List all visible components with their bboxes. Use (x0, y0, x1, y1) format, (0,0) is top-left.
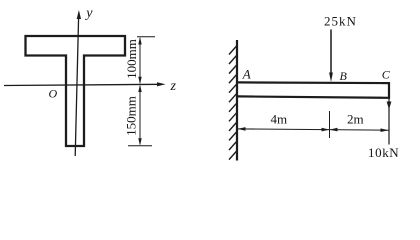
svg-text:A: A (242, 67, 251, 82)
svg-text:C: C (382, 68, 391, 82)
svg-text:100mm: 100mm (124, 39, 139, 79)
svg-text:O: O (49, 87, 58, 101)
svg-text:z: z (170, 79, 177, 94)
svg-text:4m: 4m (271, 112, 288, 127)
svg-text:10kN: 10kN (368, 145, 399, 160)
svg-text:B: B (340, 69, 348, 83)
svg-text:150mm: 150mm (124, 96, 139, 136)
svg-text:2m: 2m (347, 112, 364, 127)
svg-text:25kN: 25kN (324, 14, 357, 29)
svg-text:y: y (84, 6, 93, 21)
